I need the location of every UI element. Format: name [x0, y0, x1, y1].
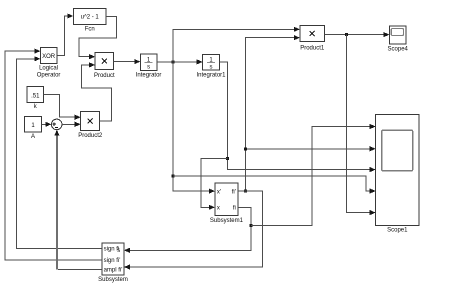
wire: branch to Scope1 input 1	[251, 124, 376, 225]
svg-text:Logical: Logical	[39, 65, 58, 71]
svg-text:x: x	[217, 206, 220, 212]
wire: Fcn output to Product input 1	[79, 16, 117, 59]
wire: junction down to Subsystem1 input 1, junction for scope branch	[172, 62, 215, 194]
svg-text:s: s	[117, 248, 120, 254]
svg-text:Integrator1: Integrator1	[196, 73, 226, 79]
svg-text:sign fi': sign fi'	[104, 258, 121, 264]
svg-text:Subsystem: Subsystem	[98, 277, 128, 283]
wire: branch to Subsystem1 input 2	[201, 159, 228, 210]
wire: Product2 output up to Product input 2	[82, 62, 112, 121]
wire: Product output to Integrator input	[114, 59, 141, 64]
wire: Sum output to Product2 input 2	[62, 122, 81, 127]
svg-text:Scope1: Scope1	[387, 227, 408, 233]
svg-text:XOR: XOR	[42, 54, 56, 60]
wire: Product1 output to Scope4, junction node	[325, 32, 390, 37]
logical operator XOR	[37, 48, 61, 79]
wire: branch down to Scope1 input 5	[346, 35, 375, 216]
wire: Subsystem output ampl fi' up to Sum bottom input	[54, 130, 102, 270]
svg-text:A: A	[31, 134, 35, 140]
scope block Scope4	[388, 26, 409, 52]
svg-text:s: s	[210, 65, 213, 71]
svg-text:fi': fi'	[232, 189, 236, 195]
svg-text:Scope4: Scope4	[388, 47, 409, 53]
svg-text:Product1: Product1	[300, 46, 325, 52]
svg-text:Fcn: Fcn	[85, 27, 95, 33]
gain block k	[27, 87, 43, 110]
sum block (+ -)	[51, 119, 62, 130]
subsystem block Subsystem1	[210, 183, 244, 224]
integrator block Integrator1	[196, 54, 226, 78]
product block Product1	[300, 25, 325, 51]
svg-text:Product: Product	[94, 73, 115, 79]
svg-text:x': x'	[217, 189, 221, 195]
wire: XOR output to Fcn input	[57, 13, 74, 55]
scope block Scope1	[376, 114, 419, 233]
product block Product	[94, 52, 115, 78]
wire: A output to Sum	[42, 122, 52, 127]
wire: Integrator1 output down to Scope1 input 3, junction node	[219, 62, 375, 172]
product block Product2	[78, 112, 103, 139]
wire: branch to Scope1 input 4	[173, 176, 376, 194]
integrator block Integrator	[136, 54, 162, 79]
svg-text:u^2 - 1: u^2 - 1	[81, 15, 100, 21]
wire: Subsystem output sign fi' to XOR input 1	[5, 49, 102, 260]
wire: Integrator output to Integrator1 input, junction node	[157, 59, 203, 64]
subsystem block Subsystem (flipped)	[98, 243, 128, 283]
wire: k output to Product2 input 1	[44, 95, 81, 120]
svg-text:ampl fi': ampl fi'	[104, 267, 123, 273]
svg-text:s: s	[147, 65, 150, 71]
svg-text:Operator: Operator	[37, 73, 61, 79]
svg-text:.51: .51	[31, 93, 40, 99]
wire: junction up to Product1 input 1	[173, 27, 300, 62]
Fcn block U1	[73, 8, 106, 32]
constant block A	[25, 116, 42, 140]
wire: Subsystem output sign fi_s to XOR input 2	[16, 56, 102, 248]
wire: Subsystem1 output 2 to Subsystem input 1, junction node	[124, 207, 252, 253]
svg-text:Integrator: Integrator	[136, 73, 162, 79]
wire: Subsystem1 output 1 to Subsystem input 2 (feedback)	[124, 191, 263, 270]
svg-text:fi: fi	[233, 206, 236, 212]
svg-text:Product2: Product2	[78, 133, 103, 139]
wire: vertical net to Product1 input 2, Scope1 input 2	[244, 35, 376, 193]
svg-text:Subsystem1: Subsystem1	[210, 218, 244, 224]
